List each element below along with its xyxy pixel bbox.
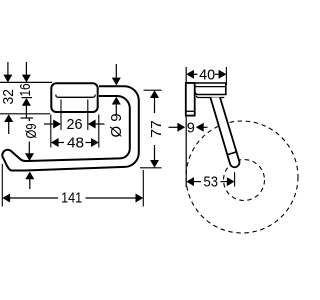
extension line 141 right — [142, 170, 144, 207]
dimension 40 — [186, 67, 226, 83]
svg-text:Ø9: Ø9 — [24, 124, 40, 139]
label diameter 9 (right, leader) — [109, 64, 125, 138]
dimension 53 — [186, 174, 234, 190]
extension line top (y=82.4) — [0, 81, 52, 83]
arm (side view) — [186, 83, 226, 95]
wall plate (side view) — [186, 83, 195, 116]
extension line 77 bottom — [140, 167, 162, 169]
dimension 48 — [51, 135, 99, 151]
svg-text:40: 40 — [199, 67, 215, 83]
dimension 141 — [2, 191, 143, 207]
svg-text:32: 32 — [1, 89, 17, 105]
dimension 16 — [18, 62, 34, 118]
extension line 40 right — [225, 67, 227, 85]
extension tick at bar tip — [234, 172, 236, 187]
svg-text:48: 48 — [67, 135, 84, 151]
bar cap seam — [228, 152, 238, 155]
dimension 26 — [44, 117, 105, 133]
dimension 77 — [149, 90, 165, 168]
extension line 77 top — [144, 89, 162, 91]
screw centerline left — [60, 100, 62, 131]
svg-text:16: 16 — [18, 84, 34, 97]
extension line 32-bottom (y=113.8) — [0, 113, 50, 115]
svg-text:53: 53 — [204, 174, 219, 190]
extension line 48 right — [98, 115, 100, 148]
svg-text:26: 26 — [67, 117, 83, 133]
plate seam (side view) — [186, 110, 195, 112]
dimension 32 — [1, 62, 17, 134]
big dashed circle (paper roll) — [186, 121, 298, 233]
screw centerline right — [87, 100, 89, 131]
extension line 141 left — [1, 164, 3, 207]
wall plate (front view) — [51, 83, 97, 112]
extension line 48 left — [50, 115, 52, 148]
label diameter 9 (left, leader) — [21, 118, 41, 189]
svg-text:Ø 9: Ø 9 — [109, 114, 125, 138]
roll-holder bar (side view, diagonal) — [210, 97, 239, 167]
svg-text:141: 141 — [61, 191, 82, 207]
svg-text:77: 77 — [149, 120, 165, 138]
small dashed circle (roll core) — [224, 160, 265, 201]
holder outline (front view): arm, bottom bar, lip — [2, 86, 139, 170]
svg-text:9: 9 — [187, 121, 195, 137]
dimension 9 (plate depth) — [169, 121, 208, 137]
arm seam line (side view) — [189, 86, 226, 88]
under-shelf line (side view) — [196, 96, 224, 98]
plate seam line — [56, 95, 95, 98]
wall line (side view) — [185, 67, 187, 187]
